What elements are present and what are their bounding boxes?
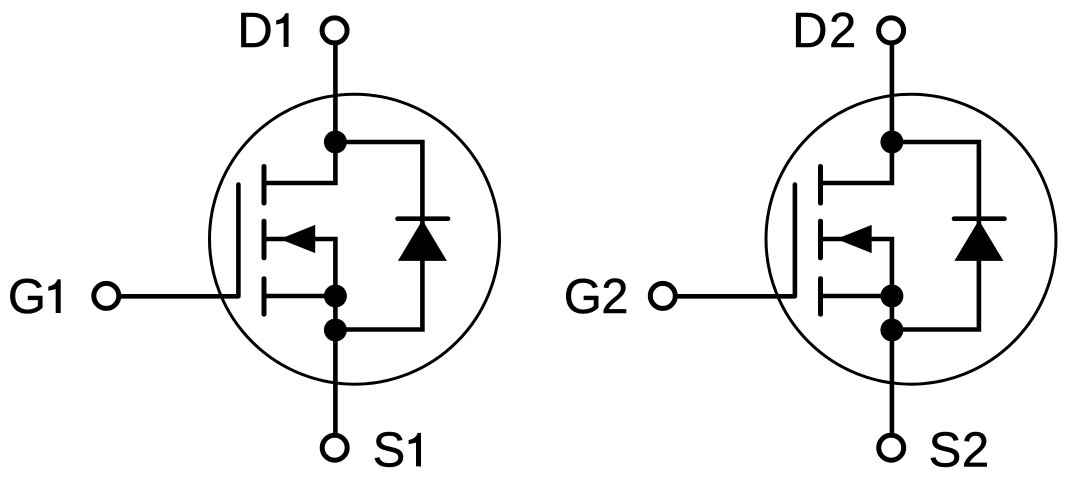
svg-text:D: D [237,4,272,58]
terminal D1 [322,18,347,43]
transistor Q1 body circle [210,94,500,384]
channel segment body Q1 [262,221,267,258]
svg-text:D: D [792,4,827,58]
gate electrode line Q2 [677,185,795,297]
wire diode branch Q1 [335,142,422,330]
node body-diode junction dot Q2 [880,319,903,342]
channel segment source Q1 [262,279,267,315]
terminal G2 [650,283,675,308]
diode D Q1 cathode bar [398,216,449,221]
svg-text:S: S [929,424,962,478]
diode D Q2 anode triangle [954,220,1003,261]
diode D Q1 anode triangle [398,220,447,261]
diode D Q2 cathode bar [954,216,1005,221]
node drain junction dot Q2 [880,131,903,154]
gate electrode line Q1 [120,185,238,297]
arrow body Q2 (points left) [836,225,871,253]
node source junction dot Q2 [880,285,903,308]
channel segment body Q2 [818,221,823,258]
node drain junction dot Q1 [324,131,347,154]
channel segment source Q2 [818,279,823,315]
terminal S2 [879,435,904,460]
node source junction dot Q1 [324,285,347,308]
wire source lead S2 [890,296,895,435]
arrow body Q1 (points left) [280,225,315,253]
svg-text:2: 2 [601,270,628,324]
terminal D2 [879,18,904,43]
wire drain lead D2 [823,43,892,183]
channel segment drain Q1 [262,167,267,204]
channel segment drain Q2 [818,167,823,204]
wire body connection Q1 [264,239,335,296]
svg-text:G: G [8,270,46,324]
svg-text:G: G [564,270,602,324]
svg-text:S: S [373,424,406,478]
wire source connection Q2 [822,294,892,299]
terminal S1 [322,435,347,460]
wire source connection Q1 [265,294,335,299]
wire drain lead D1 [266,43,335,183]
wire body connection Q2 [821,239,892,296]
wire diode branch Q2 [892,142,979,330]
terminal G1 [94,283,119,308]
node body-diode junction dot Q1 [324,319,347,342]
svg-text:2: 2 [962,424,989,478]
wire source lead S1 [333,296,338,435]
transistor Q2 body circle [766,94,1056,384]
svg-text:2: 2 [829,4,856,58]
